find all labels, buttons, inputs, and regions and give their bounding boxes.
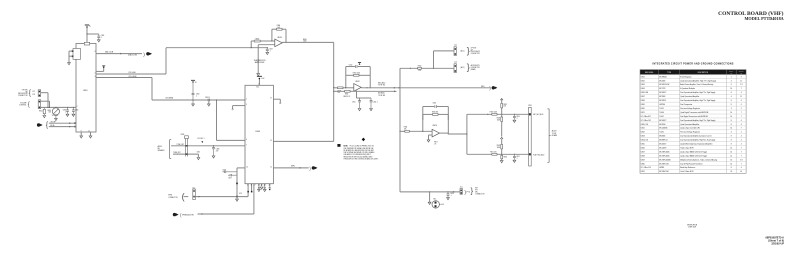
svg-text:8: 8 xyxy=(731,167,732,169)
svg-text:10K: 10K xyxy=(404,128,407,130)
label acc b xyxy=(460,66,465,69)
svg-text:U826: U826 xyxy=(641,147,645,149)
svg-text:.1: .1 xyxy=(516,158,517,160)
svg-text:PIN: PIN xyxy=(740,73,742,75)
svg-text:P801: P801 xyxy=(528,105,532,107)
label VOL HIGH xyxy=(128,72,135,74)
svg-text:14: 14 xyxy=(251,185,253,187)
svg-text:C805: C805 xyxy=(63,110,67,112)
wire R803 tap xyxy=(251,41,252,48)
svg-text:CONNECTOR: CONNECTOR xyxy=(168,197,177,199)
svg-text:U810: U810 xyxy=(641,108,645,110)
resistor R811 xyxy=(345,90,350,95)
svg-text:U829: U829 xyxy=(641,159,645,161)
svg-text:AUDIO: AUDIO xyxy=(552,129,558,132)
svg-text:U801: U801 xyxy=(83,90,88,92)
svg-text:Dual Operational Amplifier, Hi: Dual Operational Amplifier, High 'Thr', … xyxy=(680,99,715,102)
label J2 pins xyxy=(32,91,35,96)
wire U803 spk out xyxy=(273,167,308,169)
bracket to RF board xyxy=(547,109,550,162)
svg-text:27: 27 xyxy=(270,98,272,100)
svg-text:R824: R824 xyxy=(497,118,501,120)
connector J3-2 pin xyxy=(454,45,457,56)
ground relay xyxy=(68,63,71,65)
connector J2 pin block xyxy=(38,90,41,97)
svg-text:J6-2: J6-2 xyxy=(192,187,195,189)
svg-text:EXT: EXT xyxy=(475,188,478,190)
svg-text:7: 7 xyxy=(741,116,742,118)
svg-text:Octal 3-State NOS: Octal 3-State NOS xyxy=(680,170,693,173)
svg-text:U804: U804 xyxy=(641,88,645,90)
svg-text:INTEGRATED CIRCUIT POWER AND G: INTEGRATED CIRCUIT POWER AND GROUND CONN… xyxy=(652,63,733,66)
svg-text:15: 15 xyxy=(270,140,272,142)
svg-text:16: 16 xyxy=(730,159,732,161)
svg-text:U827: U827 xyxy=(641,151,645,153)
label VOL LOW xyxy=(128,76,137,78)
svg-text:U802: U802 xyxy=(641,80,645,82)
svg-text:Dual Operational Amplifier, Hi: Dual Operational Amplifier, High 'Thr', … xyxy=(680,91,715,94)
wire feedback U802B xyxy=(271,29,286,43)
svg-text:.1: .1 xyxy=(269,51,270,53)
svg-text:1: 1 xyxy=(731,76,732,78)
svg-text:MC74HC4066B: MC74HC4066B xyxy=(659,159,670,161)
wire relay pins xyxy=(69,51,72,62)
svg-text:TO RF BD: TO RF BD xyxy=(378,85,386,87)
svg-text:8: 8 xyxy=(731,140,732,142)
wire 9.6V vertical net xyxy=(399,68,400,192)
svg-text:U822: U822 xyxy=(641,132,645,134)
svg-text:4: 4 xyxy=(741,120,742,122)
resistor R801 xyxy=(39,107,46,117)
svg-text:7: 7 xyxy=(741,147,742,149)
svg-text:C806: C806 xyxy=(75,110,79,112)
svg-text:Dual Operational Amplifier, A-: Dual Operational Amplifier, A-Output Cur… xyxy=(680,135,712,138)
svg-text:11: 11 xyxy=(740,80,742,82)
svg-text:TONE_RET: TONE_RET xyxy=(173,152,181,154)
svg-text:C821: C821 xyxy=(516,156,520,158)
svg-text:FLAT_RXD_AUD: FLAT_RXD_AUD xyxy=(533,154,544,157)
svg-text:(VOL HIGH): (VOL HIGH) xyxy=(128,76,137,78)
svg-text:J3-2: J3-2 xyxy=(454,45,457,47)
supply U803 xyxy=(257,76,264,85)
wire U803 pin14 long xyxy=(251,184,253,193)
svg-text:MC14093: MC14093 xyxy=(659,147,666,149)
svg-text:MC34119-DW: MC34119-DW xyxy=(659,84,669,86)
wire U803 pin10 chain xyxy=(236,168,245,198)
svg-text:6: 6 xyxy=(246,139,247,141)
U803 bottom pins xyxy=(259,184,270,187)
svg-text:.1: .1 xyxy=(65,111,66,113)
svg-text:14: 14 xyxy=(730,147,732,149)
svg-text:4: 4 xyxy=(741,100,742,102)
wire bus upper xyxy=(96,48,267,74)
svg-text:): ) xyxy=(143,52,145,58)
svg-text:20: 20 xyxy=(730,171,732,173)
title model xyxy=(744,16,783,21)
wire opamp plus input xyxy=(258,45,275,74)
capacitor C826 xyxy=(222,169,237,173)
filter FL801 bar xyxy=(181,134,189,157)
svg-text:R811: R811 xyxy=(345,93,349,95)
svg-text:14: 14 xyxy=(730,112,732,114)
svg-text:8: 8 xyxy=(731,144,732,146)
U803 pin numbers xyxy=(246,98,272,169)
svg-text:20: 20 xyxy=(261,185,263,187)
svg-text:MC34119: MC34119 xyxy=(659,100,666,102)
ground opamp input xyxy=(257,74,260,76)
svg-text:C807: C807 xyxy=(269,49,273,51)
connector J1-4 pin xyxy=(454,62,457,73)
label ext mic connector xyxy=(475,188,484,196)
footer part number xyxy=(766,236,785,245)
connector P801 bar xyxy=(528,105,532,166)
svg-text:3: 3 xyxy=(246,104,247,106)
svg-text:8-Volt Regulator: 8-Volt Regulator xyxy=(680,75,692,78)
svg-text:MC3303: MC3303 xyxy=(659,96,665,98)
svg-text:LOC MIC 1: LOC MIC 1 xyxy=(197,138,204,140)
label speaker xyxy=(168,194,177,198)
svg-text:SHOWN FROM: SHOWN FROM xyxy=(687,224,698,226)
svg-text:CONNECTOR: CONNECTOR xyxy=(18,95,29,97)
capacitor C810 feedback xyxy=(349,64,357,68)
label R809 xyxy=(343,96,350,98)
svg-text:MC34072: MC34072 xyxy=(659,120,666,122)
svg-text:10K: 10K xyxy=(504,106,507,108)
svg-text:CONNECTOR: CONNECTOR xyxy=(475,193,484,195)
svg-text:U803: U803 xyxy=(641,84,645,86)
connector J6 pin xyxy=(192,187,195,199)
svg-text:U824, 105: U824, 105 xyxy=(641,140,648,142)
svg-text:C830: C830 xyxy=(216,149,220,151)
svg-text:U802C: U802C xyxy=(355,81,361,83)
svg-text:19: 19 xyxy=(258,185,260,187)
svg-text:MC74HC4066: MC74HC4066 xyxy=(659,155,669,157)
svg-text:PIN: PIN xyxy=(730,73,732,75)
svg-text:(SPK): (SPK) xyxy=(291,165,295,167)
label AUD RX xyxy=(533,154,544,157)
svg-text:MC34072: MC34072 xyxy=(659,92,666,94)
svg-text:PROCESSOR: PROCESSOR xyxy=(471,51,480,53)
label R817 xyxy=(434,142,438,146)
svg-text:14: 14 xyxy=(730,151,732,153)
svg-text:R804: R804 xyxy=(277,25,281,27)
capacitor C834 xyxy=(269,186,271,190)
label option connector xyxy=(18,90,29,97)
label spk paren xyxy=(291,165,311,171)
wire main input net xyxy=(41,107,76,108)
wire U803 right pin 8 xyxy=(273,140,333,142)
svg-text:(RX AUD): (RX AUD) xyxy=(378,92,385,95)
svg-text:U830: U830 xyxy=(641,163,645,165)
wire 9.6V feed xyxy=(400,68,454,69)
label R806 xyxy=(303,39,307,43)
svg-text:7: 7 xyxy=(741,155,742,157)
wire top branch xyxy=(467,114,529,115)
svg-text:4-Quadrant Multiplier: 4-Quadrant Multiplier xyxy=(680,87,695,90)
svg-text:R802: R802 xyxy=(48,110,52,112)
U801 pin numbers xyxy=(77,51,96,132)
svg-text:U821: U821 xyxy=(641,128,645,130)
svg-text:MC34072: MC34072 xyxy=(659,144,666,146)
svg-text:DIAL ILLUM: DIAL ILLUM xyxy=(105,51,114,54)
svg-text:100K: 100K xyxy=(303,41,307,43)
svg-text:J4-1: J4-1 xyxy=(460,187,463,189)
svg-text:.1: .1 xyxy=(516,118,517,120)
svg-text:REF. DESIG.: REF. DESIG. xyxy=(645,72,654,74)
svg-text:28: 28 xyxy=(195,82,197,84)
svg-text:2: 2 xyxy=(741,132,742,134)
svg-text:Precision Voltage Regulator: Precision Voltage Regulator xyxy=(680,107,700,110)
svg-text:7: 7 xyxy=(741,112,742,114)
connector J2 pin block 2 xyxy=(38,100,41,109)
svg-text:C803 .1: C803 .1 xyxy=(205,97,210,99)
wire bottom branch xyxy=(467,154,529,155)
svg-text:Audio Power Amplifier, Tone &: Audio Power Amplifier, Tone & Channel Ac… xyxy=(680,83,713,86)
svg-text:R814: R814 xyxy=(404,127,408,129)
resistor R824 divider xyxy=(497,114,503,136)
svg-text:.1: .1 xyxy=(196,95,197,97)
svg-text:R820 100K: R820 100K xyxy=(490,111,497,113)
svg-text:MC14066B: MC14066B xyxy=(659,128,667,130)
svg-text:10: 10 xyxy=(246,166,248,168)
capacitor C812 xyxy=(370,98,378,111)
svg-text:22: 22 xyxy=(264,185,266,187)
svg-text:8: 8 xyxy=(731,100,732,102)
pin squares U801 left xyxy=(74,122,76,127)
svg-text:Triple 2-Input NOR: Triple 2-Input NOR xyxy=(680,146,694,149)
svg-text:MIC: MIC xyxy=(434,199,437,201)
resistor R826 xyxy=(500,154,507,163)
svg-text:14: 14 xyxy=(730,163,732,165)
svg-text:R806: R806 xyxy=(303,39,307,41)
svg-text:10K: 10K xyxy=(338,92,341,94)
svg-text:14: 14 xyxy=(730,116,732,118)
connector MIC off-page xyxy=(492,86,498,89)
svg-text:C816: C816 xyxy=(433,102,437,104)
label acc a xyxy=(460,50,465,53)
label accessory connector xyxy=(471,64,480,71)
svg-text:C827: C827 xyxy=(228,177,232,179)
svg-text:J2-9: J2-9 xyxy=(32,94,35,96)
component on U801 top edge xyxy=(84,42,89,45)
svg-text:Dual D Flip-Flop with Set-Rese: Dual D Flip-Flop with Set-Reset xyxy=(680,162,703,165)
svg-text:R803: R803 xyxy=(256,38,260,40)
ground U803 mid pin xyxy=(260,187,263,189)
svg-text:7: 7 xyxy=(741,128,742,130)
svg-text:U807: U807 xyxy=(641,96,645,98)
svg-text:7: 7 xyxy=(741,151,742,153)
svg-text:U803: U803 xyxy=(255,131,261,133)
ground cap chain xyxy=(236,193,242,201)
wire SW B+ xyxy=(49,125,76,128)
microphone jack MK801 xyxy=(432,199,444,209)
wire to U802D xyxy=(400,130,432,132)
svg-text:17: 17 xyxy=(254,185,256,187)
capacitor C833 xyxy=(263,186,266,191)
svg-text:C811: C811 xyxy=(352,101,356,103)
svg-text:Band-Gap Reference: Band-Gap Reference xyxy=(680,167,695,169)
wire net to pin 12 xyxy=(216,99,245,140)
paren speaker xyxy=(182,192,185,202)
svg-text:SPKR AUDIO PA: SPKR AUDIO PA xyxy=(182,214,193,217)
svg-text:4: 4 xyxy=(741,140,742,142)
IC U801 regulator box xyxy=(76,44,96,133)
label thermistor amplifier xyxy=(254,60,267,64)
svg-text:VOL HIGH: VOL HIGH xyxy=(128,72,135,74)
svg-text:14: 14 xyxy=(730,88,732,90)
label DIAL ILLUM xyxy=(105,51,114,54)
wire J2 to node xyxy=(41,93,48,108)
svg-text:U809: U809 xyxy=(641,104,645,106)
svg-text:8: 8 xyxy=(731,92,732,94)
op-amp U802D xyxy=(432,125,439,137)
svg-text:C810: C810 xyxy=(349,64,353,66)
svg-text:SPKR: SPKR xyxy=(168,194,172,196)
svg-text:{: { xyxy=(28,101,30,108)
label local mic xyxy=(197,138,204,143)
capacitor C832 xyxy=(258,186,261,191)
svg-text:Quad 2-Input NAND w/Schmitt Tr: Quad 2-Input NAND w/Schmitt Trigger xyxy=(680,154,707,157)
svg-text:U802B: U802B xyxy=(277,37,282,39)
resistor R822 to supply xyxy=(500,99,507,115)
brace option conn xyxy=(467,45,470,55)
svg-text:9.6V: 9.6V xyxy=(261,78,264,80)
svg-text:Quad Operational Amplifier: Quad Operational Amplifier xyxy=(680,95,700,98)
svg-text:{: { xyxy=(29,88,32,97)
svg-text:1.2K: 1.2K xyxy=(418,70,421,72)
brace accessory conn xyxy=(467,62,470,72)
svg-text:Quad Digital Transceiver with: Quad Digital Transceiver with EEPROM xyxy=(680,111,709,114)
label spkr audio xyxy=(180,212,193,217)
svg-text:8: 8 xyxy=(731,104,732,106)
wire to J3-2 xyxy=(434,51,454,68)
svg-text:(MIC): (MIC) xyxy=(481,86,485,88)
svg-text:R809 4.7K: R809 4.7K xyxy=(343,96,350,98)
supply cap chain C802 xyxy=(191,80,200,106)
label R802 xyxy=(48,110,52,114)
ground U801 pin 1 xyxy=(80,132,83,138)
svg-text:CONNECTOR: CONNECTOR xyxy=(471,53,480,55)
svg-text:6: 6 xyxy=(731,84,732,86)
capacitor C801 xyxy=(97,34,104,40)
svg-text:2: 2 xyxy=(741,108,742,110)
svg-text:R816 1M: R816 1M xyxy=(432,112,439,114)
svg-text:Quad Differentially Input Oper: Quad Differentially Input Operational Am… xyxy=(680,143,713,146)
svg-text:U802D: U802D xyxy=(432,125,438,127)
svg-text:MODEL PTTD4018A: MODEL PTTD4018A xyxy=(744,16,783,21)
svg-text:{: { xyxy=(46,121,49,129)
svg-text:8: 8 xyxy=(731,120,732,122)
svg-text:3: 3 xyxy=(731,108,732,110)
svg-text:4: 4 xyxy=(741,92,742,94)
svg-text:TO RF BD: TO RF BD xyxy=(378,95,386,97)
IC U803 box xyxy=(245,84,273,184)
svg-text:): ) xyxy=(489,85,491,90)
brace sw xyxy=(46,121,49,129)
svg-text:MC68HC11: MC68HC11 xyxy=(659,140,667,142)
note text xyxy=(344,146,379,161)
svg-text:3: 3 xyxy=(741,76,742,78)
svg-text:U805, 806: U805, 806 xyxy=(641,92,648,94)
svg-text:11: 11 xyxy=(88,130,90,132)
svg-text:MC74HC744: MC74HC744 xyxy=(659,163,668,165)
svg-text:DESCRIPTION: DESCRIPTION xyxy=(698,72,708,74)
ground below C801 xyxy=(97,40,100,42)
wire U802D plus input xyxy=(427,135,432,142)
svg-text:.1: .1 xyxy=(450,195,451,197)
svg-text:SW B+: SW B+ xyxy=(50,125,55,127)
wire U801 aux stub xyxy=(96,66,105,72)
wire feedback U802D xyxy=(422,107,449,135)
svg-text:7: 7 xyxy=(741,163,742,165)
table title xyxy=(652,63,733,66)
svg-text:4: 4 xyxy=(741,104,742,106)
connector SPK off-page xyxy=(312,166,318,169)
svg-text:OPTION: OPTION xyxy=(471,47,477,49)
capacitor C830 xyxy=(212,145,219,158)
svg-text:C831: C831 xyxy=(197,151,201,153)
svg-text:.1: .1 xyxy=(101,37,102,39)
svg-text:C820: C820 xyxy=(516,116,520,118)
wire bus lower xyxy=(96,78,245,101)
resistor R812 series xyxy=(418,65,422,72)
small note under table xyxy=(687,224,698,228)
bracket audio pa xyxy=(170,140,172,159)
svg-text:MIC: MIC xyxy=(475,192,478,194)
svg-text:(ACC): (ACC) xyxy=(460,66,465,69)
title control board xyxy=(718,10,784,17)
connector SW B+ off-page xyxy=(37,123,43,126)
svg-text:Dual Digital Transceiver with: Dual Digital Transceiver with EEPROM xyxy=(680,115,708,118)
svg-text:U825: U825 xyxy=(641,144,645,146)
wire speaker xyxy=(195,196,248,198)
svg-text:TYPE: TYPE xyxy=(667,72,671,74)
svg-text:U811: U811 xyxy=(641,112,645,114)
svg-text:3/31/92-UP: 3/31/92-UP xyxy=(771,242,784,245)
svg-text:50K: 50K xyxy=(48,112,51,114)
svg-text:470: 470 xyxy=(216,151,219,153)
svg-text:560K: 560K xyxy=(497,147,500,149)
wire output vertical xyxy=(333,42,335,141)
svg-text:VOLUME: VOLUME xyxy=(52,115,58,117)
label option connector right xyxy=(471,47,480,55)
label VOLUME xyxy=(52,115,58,117)
svg-text:5.0V: 5.0V xyxy=(441,204,444,206)
svg-text:IF J3-7 (13.8V) IS OPENED, 9.6: IF J3-7 (13.8V) IS OPENED, 9.6V ON xyxy=(350,146,374,148)
resistor R814 xyxy=(404,127,410,133)
wire U802D output xyxy=(440,132,467,135)
svg-text:R821 470: R821 470 xyxy=(490,151,496,153)
svg-text:PTT: PTT xyxy=(475,190,478,192)
svg-text:U7, 8 Bus 817: U7, 8 Bus 817 xyxy=(641,116,651,118)
svg-text:TO RF: TO RF xyxy=(552,133,557,135)
svg-text:R828: R828 xyxy=(181,134,185,136)
supply tap divider xyxy=(500,137,503,144)
svg-text:560K: 560K xyxy=(497,120,500,122)
svg-text:C801: C801 xyxy=(101,35,105,37)
paren PTT xyxy=(464,190,470,196)
svg-text:TL064: TL064 xyxy=(659,112,664,114)
supply tap C810 xyxy=(358,63,361,65)
svg-text:J2-7: J2-7 xyxy=(32,91,35,93)
svg-text:R825: R825 xyxy=(497,145,501,147)
supply arrow B+ U801 xyxy=(85,24,91,27)
resistor R810 feedback xyxy=(346,73,370,77)
wire U802C output xyxy=(361,87,490,89)
svg-text:TL431: TL431 xyxy=(659,108,664,110)
svg-text:(MIC AUD): (MIC AUD) xyxy=(378,81,386,84)
label mic audio xyxy=(378,81,386,86)
